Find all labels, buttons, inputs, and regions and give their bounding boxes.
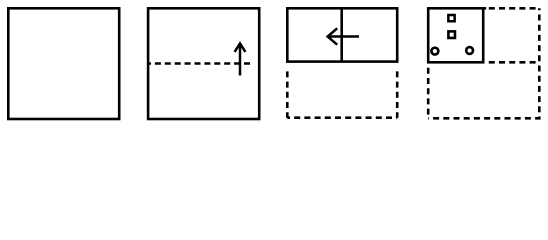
panel 4: dashed right+bottom edges [428, 8, 539, 118]
panel 3: dashed ghost rect left side [286, 67, 289, 118]
panel 4: dashed divider [486, 61, 539, 64]
panel 4: dashed top edge [486, 7, 539, 10]
panel 4: small solid box [428, 8, 483, 62]
panel 2: box outline [148, 8, 259, 119]
panel 4: small square B [448, 31, 455, 38]
panel 4: dashed left edge [427, 64, 430, 119]
panel 4: top edge overshoot [483, 7, 486, 10]
panel 4: small square A [448, 15, 454, 21]
panel 3: center divider [340, 8, 343, 61]
panel 3: left arrow shaft [328, 35, 359, 38]
panel 3: dashed ghost rect bottom side [287, 116, 397, 119]
panel 3: top slab rect [287, 8, 397, 61]
panel 4: circle left [431, 48, 438, 55]
panel 2: up arrow shaft [239, 44, 242, 76]
panel 3: left arrow head [328, 28, 338, 44]
panel 3: dashed ghost rect right side [396, 67, 399, 118]
panel 2: up arrow head [235, 43, 246, 52]
panel 2: dashed fold line [149, 62, 250, 65]
panel 4: circle right [466, 47, 473, 54]
panel 1: closed box [8, 8, 119, 119]
